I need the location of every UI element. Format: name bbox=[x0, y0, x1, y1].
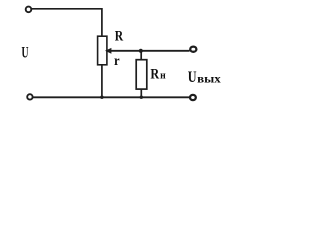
terminal input top-left bbox=[26, 7, 32, 13]
node junction wiper / Rn bbox=[139, 49, 143, 53]
terminal input bottom-left bbox=[27, 94, 32, 99]
node junction Rn / bottom rail bbox=[140, 96, 143, 99]
wire top rail to potentiometer bbox=[32, 8, 102, 36]
label Uvyh output voltage bbox=[188, 69, 221, 86]
svg-text:вых: вых bbox=[197, 71, 221, 85]
wire bottom rail bbox=[33, 96, 190, 98]
label Rn load resistor bbox=[150, 67, 165, 83]
svg-text:R: R bbox=[115, 29, 124, 45]
wire wiper to output terminal bbox=[111, 50, 190, 52]
resistor Rn body bbox=[136, 60, 147, 89]
wiper arrow of potentiometer bbox=[105, 48, 111, 54]
svg-text:R: R bbox=[150, 67, 159, 83]
node junction pot / bottom rail bbox=[100, 96, 103, 99]
svg-text:r: r bbox=[114, 54, 120, 69]
wire resistor Rn bottom to bottom rail bbox=[140, 89, 142, 97]
svg-text:U: U bbox=[188, 69, 197, 86]
svg-text:н: н bbox=[160, 71, 166, 82]
wire potentiometer bottom to bottom rail bbox=[101, 65, 103, 97]
terminal output top-right bbox=[190, 47, 196, 52]
potentiometer R body bbox=[98, 36, 107, 65]
svg-text:U: U bbox=[22, 45, 29, 62]
terminal output bottom-right bbox=[190, 95, 196, 100]
wire junction down to resistor Rn bbox=[140, 51, 142, 60]
